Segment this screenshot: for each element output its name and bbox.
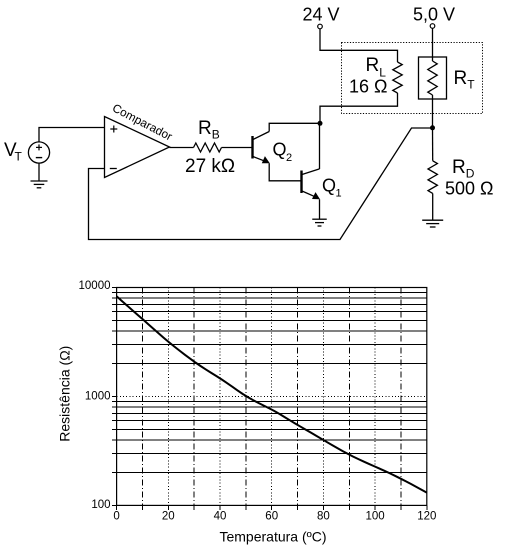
- terminal 5,0 V: [430, 24, 435, 29]
- wire 24V to RL: [320, 29, 398, 62]
- svg-text:Resistência (Ω): Resistência (Ω): [57, 346, 73, 442]
- graph x-axis labels: [113, 511, 436, 523]
- op-amp comparator U1: [105, 117, 170, 178]
- wire Q1 emitter to ground: [319, 199, 321, 219]
- label 24 V: [303, 4, 340, 24]
- svg-text:R: R: [452, 157, 466, 178]
- wire RL bottom to node A: [320, 93, 398, 123]
- label Q1: [322, 175, 342, 199]
- label RD: [452, 157, 475, 181]
- svg-text:5,0 V: 5,0 V: [413, 4, 455, 24]
- wire Q1 collector to node A: [319, 123, 321, 169]
- graph y-axis title Resistencia: [57, 346, 73, 442]
- terminal 24 V: [318, 24, 323, 29]
- svg-text:T: T: [467, 78, 475, 92]
- transistor Q1: [302, 169, 321, 199]
- svg-text:27 kΩ: 27 kΩ: [185, 156, 235, 177]
- thermal coupling dotted box: [342, 43, 483, 114]
- graph y-axis ticks: [112, 288, 117, 506]
- thermistor RT: [419, 57, 447, 99]
- resistor RD: [428, 161, 437, 194]
- resistor RL: [393, 62, 402, 93]
- svg-text:100: 100: [91, 499, 110, 511]
- value 27 kOhm: [185, 156, 235, 177]
- label RL: [366, 55, 387, 80]
- feedback wire comparator minus input to node B: [89, 128, 433, 240]
- svg-text:16 Ω: 16 Ω: [349, 77, 387, 97]
- value 16 Ohm: [349, 77, 387, 97]
- svg-text:1000: 1000: [85, 391, 111, 403]
- svg-text:Q: Q: [273, 140, 287, 160]
- graph plot border: [117, 288, 427, 506]
- svg-text:100: 100: [366, 511, 385, 523]
- label RB: [198, 118, 220, 142]
- svg-text:120: 120: [417, 511, 436, 523]
- svg-text:2: 2: [286, 152, 292, 164]
- graph y-axis labels: [79, 280, 111, 511]
- svg-text:60: 60: [265, 511, 278, 523]
- wire VT bottom to ground: [38, 163, 40, 181]
- graph x-axis ticks: [117, 505, 427, 510]
- svg-text:10000: 10000: [79, 280, 111, 292]
- svg-text:Temperatura (ºC): Temperatura (ºC): [219, 529, 326, 545]
- label Comparador: [110, 101, 175, 144]
- svg-text:500 Ω: 500 Ω: [445, 178, 494, 198]
- transistor Q2: [253, 132, 270, 164]
- label RT: [454, 68, 476, 92]
- svg-text:R: R: [366, 55, 380, 76]
- wire comparator output to RB: [170, 147, 194, 149]
- wire RT bottom to node B: [432, 95, 434, 128]
- label 5,0 V: [413, 4, 455, 24]
- wire Q2 emitter to Q1 base: [269, 163, 301, 181]
- svg-text:R: R: [454, 68, 468, 89]
- label Q2: [273, 140, 293, 165]
- svg-text:Q: Q: [322, 175, 336, 195]
- svg-text:1: 1: [336, 188, 342, 200]
- svg-text:20: 20: [162, 511, 175, 523]
- svg-text:B: B: [212, 128, 220, 142]
- ground (Q1): [312, 219, 327, 226]
- wire node B to RD: [432, 128, 434, 161]
- svg-text:80: 80: [317, 511, 330, 523]
- label VT: [4, 140, 23, 164]
- svg-text:40: 40: [214, 511, 227, 523]
- svg-text:R: R: [198, 118, 212, 139]
- wire RB to Q2 base: [222, 147, 253, 149]
- value 500 Ohm: [445, 178, 494, 198]
- graph vertical gridlines: [142, 288, 401, 506]
- svg-text:24 V: 24 V: [303, 4, 340, 24]
- graph x-axis title Temperatura: [219, 529, 326, 545]
- ground (RD): [422, 220, 443, 227]
- ground (VT): [31, 181, 48, 188]
- voltage source VT: [28, 142, 49, 163]
- node B junction dot: [430, 125, 435, 130]
- node A junction dot: [318, 121, 323, 126]
- svg-text:0: 0: [113, 511, 119, 523]
- wire RD to ground: [432, 193, 434, 220]
- wire Q2 collector to node A: [269, 123, 320, 131]
- graph horizontal minor gridlines: [117, 292, 427, 472]
- wire VT top to comparator + input: [39, 128, 105, 142]
- svg-text:T: T: [15, 150, 23, 164]
- wire 5V to RT: [432, 28, 434, 61]
- resistor RB: [194, 143, 222, 152]
- graph decade gridline 1000 (dotted): [117, 395, 427, 397]
- thermistor resistance curve: [117, 296, 427, 492]
